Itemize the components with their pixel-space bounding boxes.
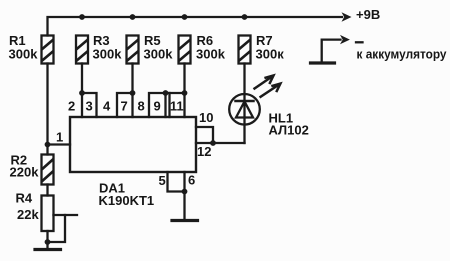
svg-text:300k: 300k: [144, 47, 174, 62]
svg-text:9: 9: [154, 99, 161, 114]
node rail-R5: [130, 14, 136, 20]
wire bracket pins 4-7: [117, 93, 133, 117]
svg-text:K190KT1: K190KT1: [99, 193, 155, 208]
svg-text:300к: 300к: [256, 47, 285, 62]
svg-text:4: 4: [103, 99, 111, 114]
svg-text:10: 10: [199, 110, 213, 125]
svg-text:220k: 220k: [10, 165, 40, 180]
svg-text:300k: 300k: [196, 47, 226, 62]
arrowhead battery: [340, 35, 350, 44]
resistor R2: [42, 155, 54, 185]
wire bracket pins 8-9: [149, 93, 166, 117]
wire +9V top rail: [48, 17, 343, 36]
resistor R7: [239, 36, 251, 64]
LED light arrow 1: [255, 76, 273, 88]
node R4 bottom junction: [45, 239, 51, 245]
node rail-R3: [79, 14, 85, 20]
svg-text:22k: 22k: [17, 207, 39, 222]
wire R4 bottom to ground: [46, 231, 48, 250]
node R5-bracket: [130, 90, 136, 96]
ground left: [35, 248, 61, 251]
wire bracket pins 2-3: [82, 93, 97, 117]
wire R2 bottom to R4 top: [46, 185, 48, 196]
wire R4 tap: [54, 214, 78, 216]
LED HL1 circle: [229, 94, 260, 125]
svg-text:АЛ102: АЛ102: [269, 123, 309, 138]
arrowhead +9V: [342, 12, 352, 21]
battery terminal bar: [311, 61, 335, 64]
node R6-bracket: [182, 90, 188, 96]
svg-text:3: 3: [86, 99, 93, 114]
wire to middle ground: [183, 192, 185, 221]
LED triangle: [236, 102, 253, 118]
resistor R3: [76, 36, 88, 64]
node rail-R6: [182, 14, 188, 20]
resistor R5: [127, 36, 139, 64]
node brackets 9-11: [163, 90, 169, 96]
svg-text:300k: 300k: [9, 47, 39, 62]
wire R1 bottom to R2 top (through pin1 node): [46, 64, 48, 155]
wire bracket pin 11: [166, 92, 185, 94]
svg-text:11: 11: [170, 99, 184, 114]
wire R5 down to pin 7: [131, 64, 133, 118]
svg-text:5: 5: [159, 173, 166, 188]
svg-text:к аккумулятору: к аккумулятору: [357, 47, 448, 62]
LED cathode bar: [236, 100, 254, 103]
LED light arrow 2: [261, 84, 280, 97]
wire pin 1: [48, 143, 71, 145]
wire R7 down through LED: [243, 64, 245, 144]
wire pin 6 stub: [183, 172, 185, 192]
svg-text:6: 6: [188, 173, 195, 188]
svg-text:300k: 300k: [93, 47, 123, 62]
wire bracket pins 10-12: [196, 127, 213, 143]
svg-text:7: 7: [121, 99, 128, 114]
battery terminal symbol: [322, 40, 341, 63]
wire R6 down to pin 11: [183, 64, 185, 118]
svg-text:1: 1: [56, 130, 63, 145]
resistor R4: [42, 196, 54, 232]
svg-text:R4: R4: [16, 191, 33, 206]
ground middle: [172, 219, 198, 222]
svg-text:8: 8: [138, 99, 145, 114]
wire pin 5 stub: [168, 172, 185, 192]
svg-text:+9В: +9В: [356, 7, 380, 22]
wire LED bottom to pin 12: [213, 142, 245, 144]
node pin12 junction: [210, 140, 216, 146]
svg-text:12: 12: [197, 144, 211, 159]
resistor R1: [42, 36, 54, 64]
node pin1 junction: [45, 142, 51, 148]
wire R3 down to pin 2: [81, 64, 83, 118]
node pins 5-6 junction: [182, 189, 188, 195]
node rail-R7: [242, 14, 248, 20]
resistor R6: [179, 36, 191, 64]
svg-text:2: 2: [68, 99, 75, 114]
minus sign: [356, 41, 363, 43]
op-amp U1 IC DA1 box: [70, 117, 196, 172]
node R3-bracket: [79, 90, 85, 96]
